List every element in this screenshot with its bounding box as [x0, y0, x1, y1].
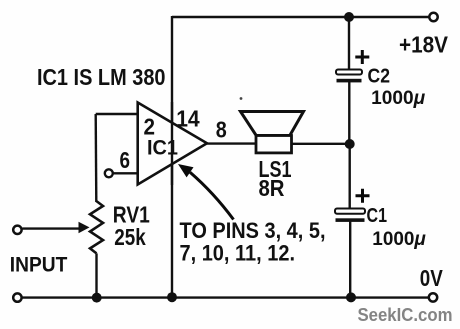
- capacitor C1 polarity plus sign: [356, 189, 370, 203]
- op-amp U1 triangle IC1: [138, 103, 207, 185]
- svg-text:7, 10, 11, 12.: 7, 10, 11, 12.: [180, 240, 296, 265]
- wire RV1 bottom lead to bottom rail: [95, 253, 97, 297]
- speaker LS1 cone: [241, 112, 304, 136]
- svg-text:1000μ: 1000μ: [372, 229, 426, 250]
- wire right rail segment junction to C2 top: [348, 17, 350, 70]
- wire top rail from pin14 line to +18V terminal: [172, 16, 430, 18]
- wire pin14 line through triangle: [171, 102, 173, 185]
- speaker LS1 coil box: [256, 136, 292, 153]
- node junction top rail to C2: [344, 12, 354, 22]
- capacitor C2 top plate: [336, 70, 362, 75]
- terminal +18V open circle: [429, 13, 437, 21]
- annotation arrowhead: [178, 164, 194, 177]
- terminal input lower open circle: [13, 293, 21, 301]
- wire vertical pin-14 line from top rail down to bottom rail: [171, 16, 173, 298]
- wire output pin 8 from apex to speaker: [207, 142, 256, 144]
- node junction pin14 line bottom: [167, 292, 177, 302]
- svg-text:+18V: +18V: [399, 32, 449, 58]
- svg-text:IC1: IC1: [147, 137, 178, 160]
- svg-text:2: 2: [144, 113, 156, 139]
- terminal pin 6 open circle: [105, 169, 113, 177]
- node junction C1 bottom: [346, 292, 356, 302]
- svg-text:IC1 IS LM 380: IC1 IS LM 380: [37, 64, 166, 90]
- node junction speaker wire / rail: [345, 139, 355, 149]
- svg-text:6: 6: [120, 147, 131, 173]
- speck above speaker: [240, 97, 243, 100]
- wire right rail C1 bottom to bottom rail: [349, 222, 351, 298]
- wire pin 2 input from feedback line to triangle: [96, 113, 138, 115]
- svg-text:14: 14: [176, 106, 200, 132]
- svg-text:SeekIC.com: SeekIC.com: [358, 305, 453, 325]
- wire pin 6 stub to triangle: [113, 172, 138, 174]
- wiper arrowhead of RV1: [79, 222, 90, 233]
- capacitor C2 polarity plus sign: [355, 50, 369, 64]
- node junction RV1 bottom: [92, 293, 102, 303]
- svg-text:8R: 8R: [259, 175, 285, 201]
- svg-text:INPUT: INPUT: [10, 253, 68, 277]
- wire right rail mid junction to C1 top: [349, 144, 351, 209]
- capacitor C1 bottom plate: [336, 218, 365, 222]
- annotation curved arrow to triangle: [190, 172, 234, 219]
- svg-text:C2: C2: [368, 66, 391, 88]
- resistor RV1 zigzag: [90, 201, 103, 253]
- svg-text:8: 8: [216, 117, 227, 143]
- wire speaker to right rail: [292, 143, 351, 145]
- wire bottom rail: [22, 296, 429, 298]
- svg-text:C1: C1: [367, 205, 388, 227]
- wire input wiper lead: [23, 227, 80, 229]
- svg-text:25k: 25k: [114, 224, 146, 250]
- wire vertical from pin2 wire down to RV1 top: [94, 114, 97, 202]
- svg-text:1000μ: 1000μ: [371, 88, 426, 109]
- svg-text:TO PINS 3, 4, 5,: TO PINS 3, 4, 5,: [180, 218, 326, 243]
- wire right rail C2 bottom to mid junction: [348, 82, 350, 144]
- terminal 0V open circle: [429, 293, 437, 301]
- terminal INPUT wiper open circle: [13, 226, 21, 234]
- capacitor C1 top plate: [335, 209, 365, 214]
- capacitor C2 bottom plate: [337, 79, 362, 83]
- svg-text:0V: 0V: [420, 265, 444, 291]
